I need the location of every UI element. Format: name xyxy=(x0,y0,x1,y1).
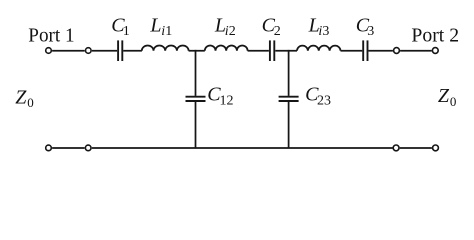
capacitor C23 lower lead xyxy=(288,102,290,148)
terminal port1 outer xyxy=(46,48,52,54)
inductor L_i2 xyxy=(205,46,248,51)
svg-text:23: 23 xyxy=(317,93,331,108)
terminal port1 inner xyxy=(86,48,92,54)
capacitor C23 plates xyxy=(279,97,299,101)
svg-text:1: 1 xyxy=(123,24,130,39)
wire top: port2 terminal link xyxy=(400,50,432,52)
svg-text:2: 2 xyxy=(229,24,236,39)
svg-text:Z: Z xyxy=(438,85,450,107)
capacitor C2 plates xyxy=(270,40,274,61)
node A vertical wire upper xyxy=(195,50,197,96)
terminal port2 inner xyxy=(394,48,400,54)
inductor L_i1 xyxy=(142,46,189,51)
svg-text:3: 3 xyxy=(322,24,329,39)
svg-text:1: 1 xyxy=(165,24,172,39)
wire top: C2 to L_i3 through node B xyxy=(275,50,297,52)
terminal bottom-right outer xyxy=(433,145,439,151)
wire top: terminal to C1 xyxy=(92,50,117,52)
wire top: L_i3 to C3 xyxy=(341,50,363,52)
svg-text:0: 0 xyxy=(450,94,457,109)
terminal bottom-right inner xyxy=(393,145,399,151)
svg-text:2: 2 xyxy=(274,24,281,39)
wire top: port1 terminal link xyxy=(52,50,85,52)
inductor L_i3 xyxy=(297,46,341,51)
wire bottom: right terminal link xyxy=(400,147,432,149)
svg-text:0: 0 xyxy=(27,95,34,110)
svg-text:Z: Z xyxy=(15,86,27,108)
wire bottom: left terminal link xyxy=(52,147,85,149)
wire top: L_i1 to L_i2 through node A xyxy=(189,50,205,52)
capacitor C12 lower lead xyxy=(195,102,197,148)
terminal bottom-left outer xyxy=(46,145,52,151)
svg-text:Port 1: Port 1 xyxy=(28,25,74,47)
svg-text:Port 2: Port 2 xyxy=(411,25,459,47)
wire top: L_i2 to C2 xyxy=(248,50,269,52)
terminal bottom-left inner xyxy=(85,145,91,151)
wire top: C3 to port2 terminal xyxy=(368,50,393,52)
svg-text:3: 3 xyxy=(367,24,374,39)
capacitor C12 plates xyxy=(186,97,206,101)
capacitor C1 plates xyxy=(118,40,122,61)
wire top: C1 to L_i1 xyxy=(123,50,142,52)
capacitor C3 plates xyxy=(363,40,367,61)
svg-text:12: 12 xyxy=(220,93,234,108)
terminal port2 outer xyxy=(432,48,438,54)
node B vertical wire upper xyxy=(288,50,290,96)
svg-text:L: L xyxy=(149,15,161,37)
wire bottom: main return xyxy=(92,147,393,149)
